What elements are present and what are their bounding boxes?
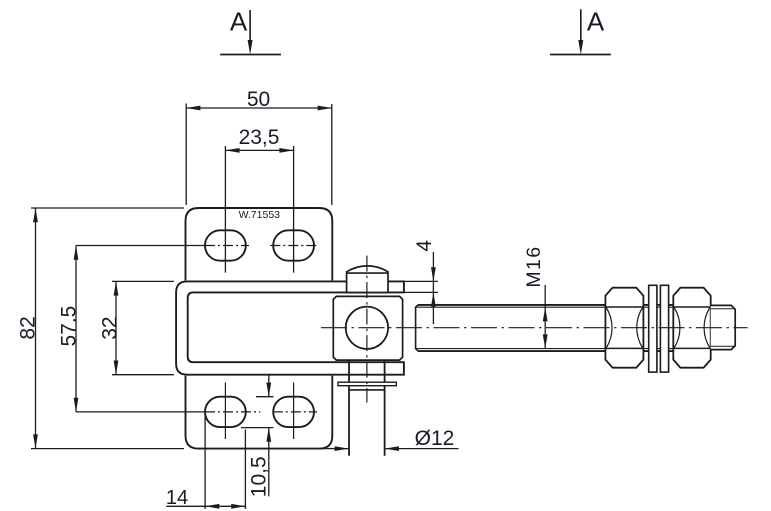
svg-text:57.5: 57.5 bbox=[58, 306, 81, 347]
hex nut 2 bbox=[673, 288, 710, 368]
dimension 50 bbox=[186, 88, 332, 205]
rod left end edge bbox=[416, 305, 418, 351]
hole centerline bottom-left vertical bbox=[224, 382, 226, 439]
centerline horizontal bbox=[321, 327, 748, 329]
dimension 32 bbox=[98, 281, 174, 374]
clamp U-bracket bbox=[176, 281, 404, 374]
hole centerline bottom-right horizontal bbox=[273, 411, 317, 413]
rod end stub bbox=[711, 305, 736, 349]
pivot pin head bbox=[347, 266, 388, 293]
slotted hole top-right bbox=[273, 230, 314, 260]
collar bottom edge bbox=[350, 389, 384, 391]
dimension Ø12 bbox=[321, 427, 459, 451]
svg-text:23,5: 23,5 bbox=[239, 126, 280, 149]
svg-text:32: 32 bbox=[98, 316, 121, 339]
svg-text:A: A bbox=[587, 7, 605, 37]
dimension 4 bbox=[403, 240, 438, 324]
svg-text:50: 50 bbox=[247, 88, 270, 111]
washer under bracket bbox=[338, 382, 396, 386]
hole centerline bottom-left horizontal bbox=[205, 411, 260, 413]
clamping rod M16 thread minor lines bbox=[416, 306, 710, 308]
hole centerline top-left horizontal bbox=[205, 245, 249, 247]
hole centerline bottom-right vertical bbox=[293, 382, 295, 439]
slotted hole bottom-left bbox=[205, 397, 246, 427]
hole centerline top-right horizontal bbox=[270, 245, 317, 247]
slotted hole top-left bbox=[205, 230, 246, 260]
centerline vertical pivot bbox=[366, 256, 368, 403]
svg-text:A: A bbox=[230, 7, 248, 37]
dimension 82 bbox=[16, 208, 184, 449]
pivot pin shaft bbox=[348, 360, 350, 455]
svg-text:14: 14 bbox=[166, 487, 188, 509]
svg-text:4: 4 bbox=[413, 240, 436, 252]
svg-text:M16: M16 bbox=[523, 246, 545, 288]
slotted hole bottom-right bbox=[273, 397, 314, 427]
svg-text:10,5: 10,5 bbox=[247, 456, 270, 497]
washer 2 bbox=[660, 285, 668, 372]
dimension 14 bbox=[166, 414, 246, 509]
dimension 57.5 bbox=[58, 246, 205, 412]
section marker A left bbox=[220, 7, 281, 55]
bracket erase backing bbox=[175, 280, 405, 375]
section marker A right bbox=[550, 7, 611, 55]
svg-text:W.71553: W.71553 bbox=[239, 209, 281, 221]
pivot block bbox=[333, 296, 402, 360]
svg-text:Ø12: Ø12 bbox=[415, 427, 455, 450]
dimension M16 bbox=[523, 246, 548, 349]
mounting plate bbox=[186, 208, 333, 449]
pivot pin circle bbox=[346, 307, 388, 349]
dimension 23,5 bbox=[225, 126, 293, 273]
svg-text:82: 82 bbox=[16, 316, 39, 339]
hex nut 1 bbox=[605, 288, 643, 368]
clamping rod M16 thread major lines bbox=[418, 304, 710, 306]
dimension 10,5 bbox=[241, 375, 274, 497]
washer 1 bbox=[649, 285, 657, 372]
